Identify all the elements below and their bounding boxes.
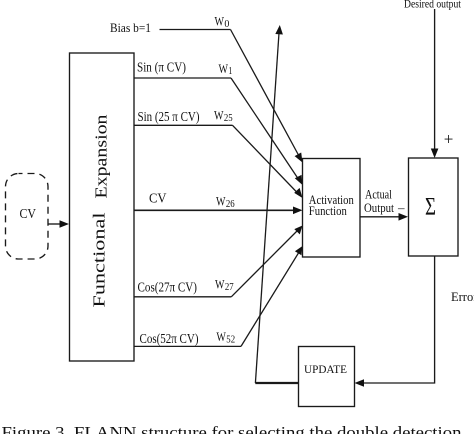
svg-text:W: W xyxy=(215,14,225,29)
summing box xyxy=(409,158,459,256)
svg-text:0: 0 xyxy=(224,19,229,30)
svg-text:–: – xyxy=(397,200,405,215)
svg-text:25: 25 xyxy=(224,113,233,124)
label W0 xyxy=(215,14,230,30)
wire cos52 diagonal to activation xyxy=(241,246,303,346)
input dashed box CV xyxy=(6,174,49,260)
svg-text:Functional: Functional xyxy=(89,212,108,308)
wire cos27 diagonal to activation xyxy=(231,226,302,297)
svg-text:+: + xyxy=(444,130,454,149)
wire cos27 horizontal xyxy=(134,296,231,298)
svg-text:W: W xyxy=(214,108,224,123)
label sigma xyxy=(425,194,436,221)
label W1 xyxy=(219,61,233,77)
svg-text:Bias b=1: Bias b=1 xyxy=(110,21,151,35)
svg-text:Error: Error xyxy=(451,290,474,304)
label CV (input) xyxy=(20,206,37,221)
svg-text:Function: Function xyxy=(309,203,347,218)
svg-text:UPDATE: UPDATE xyxy=(304,362,347,376)
svg-text:Σ: Σ xyxy=(425,194,436,221)
label Functional (vertical) xyxy=(89,212,108,308)
label UPDATE xyxy=(304,362,347,376)
update box xyxy=(299,347,355,407)
label W52 xyxy=(216,329,235,345)
svg-text:W: W xyxy=(219,61,229,76)
wire bias diagonal to activation xyxy=(231,30,303,163)
label Cos(52pi CV) xyxy=(140,331,199,346)
label Error xyxy=(451,290,474,304)
wire sin25 diagonal to activation xyxy=(233,125,303,198)
svg-text:W: W xyxy=(215,277,225,292)
wire desired output arrow xyxy=(431,9,439,158)
label CV (expansion output) xyxy=(149,191,167,206)
wire update feedback diagonal up arrow xyxy=(255,25,283,383)
wire input arrow xyxy=(48,220,69,227)
label Cos(27pi CV) xyxy=(138,280,198,295)
wire update feedback horizontal xyxy=(255,382,298,384)
wire sin25 horizontal xyxy=(134,124,233,126)
svg-text:1: 1 xyxy=(228,66,232,77)
wire bias horizontal xyxy=(160,29,231,31)
wire sin1 horizontal xyxy=(134,77,231,79)
functional expansion box xyxy=(70,53,135,361)
svg-text:26: 26 xyxy=(226,199,235,210)
label Expansion (vertical) xyxy=(92,115,111,199)
wire actual output arrow xyxy=(360,213,408,221)
label Actual Output xyxy=(364,188,394,216)
caption Figure 3 xyxy=(2,423,462,434)
label plus sign xyxy=(444,130,454,149)
svg-text:Actual: Actual xyxy=(365,188,392,202)
svg-text:52: 52 xyxy=(226,334,235,345)
label minus sign xyxy=(397,200,405,215)
svg-text:W: W xyxy=(216,329,226,344)
label W26 xyxy=(216,194,235,210)
label Sin (25 pi CV) xyxy=(138,109,200,124)
wire cos52 horizontal xyxy=(134,345,241,347)
label Sin (pi CV) xyxy=(137,60,186,75)
label W25 xyxy=(214,108,233,124)
svg-text:Output: Output xyxy=(364,201,394,215)
svg-text:CV: CV xyxy=(149,191,167,206)
svg-text:Cos(52π CV): Cos(52π CV) xyxy=(140,331,199,346)
svg-text:Cos(27π CV): Cos(27π CV) xyxy=(138,280,198,295)
label Activation Function xyxy=(309,192,354,218)
label W27 xyxy=(215,277,234,293)
label Desired output xyxy=(404,0,462,11)
wire sin1 diagonal to activation xyxy=(231,78,303,185)
activation function box xyxy=(303,159,361,258)
svg-text:Sin (25 π CV): Sin (25 π CV) xyxy=(138,109,200,124)
wire error feedback from summer to update xyxy=(355,256,435,387)
svg-text:Desired output: Desired output xyxy=(404,0,462,11)
svg-text:W: W xyxy=(216,194,226,209)
svg-text:27: 27 xyxy=(225,282,234,293)
svg-text:Figure 3. FLANN structure for: Figure 3. FLANN structure for selecting … xyxy=(2,423,462,434)
wire CV horizontal arrow to activation xyxy=(134,207,303,215)
svg-text:Sin (π CV): Sin (π CV) xyxy=(137,60,186,75)
label Bias b=1 xyxy=(110,21,151,35)
svg-text:CV: CV xyxy=(20,206,37,221)
svg-text:Expansion: Expansion xyxy=(92,115,111,199)
